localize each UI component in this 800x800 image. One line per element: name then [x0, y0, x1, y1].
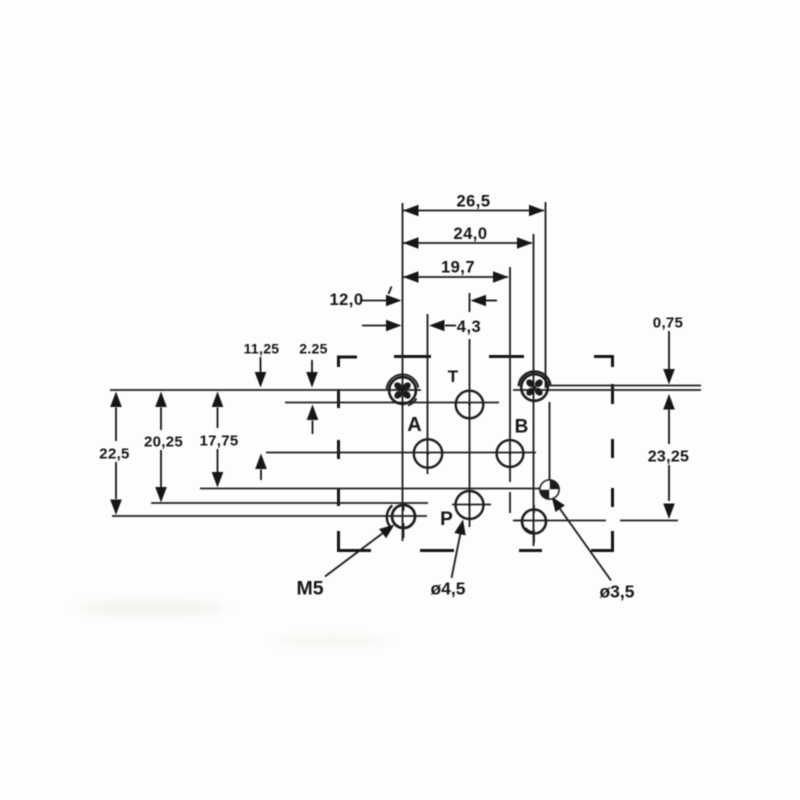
- small hole diameter 3,5: [540, 480, 559, 499]
- port A: [414, 439, 442, 467]
- extension line: small hole column: [549, 402, 551, 480]
- plate outline dashed: right edge dash 2: [611, 439, 614, 458]
- dimension 19,7 line: [403, 276, 508, 278]
- svg-text:22,5: 22,5: [99, 446, 129, 463]
- svg-text:17,75: 17,75: [199, 433, 238, 450]
- extension line: left bolt column: [402, 203, 404, 541]
- mounting hole M5 top-right: [519, 371, 551, 400]
- svg-text:ø3,5: ø3,5: [599, 582, 634, 602]
- svg-text:12,0: 12,0: [329, 291, 363, 309]
- plate outline dashed: bottom-right corner: [591, 531, 613, 551]
- extension line: port T column: [469, 293, 471, 312]
- dimension 11,25 upper arrow: [260, 357, 262, 372]
- plate outline dashed: bottom edge dash 2: [519, 549, 542, 552]
- svg-text:0,75: 0,75: [653, 315, 683, 332]
- svg-text:11,25: 11,25: [244, 341, 280, 357]
- dimension 20,25 line: [155, 392, 167, 408]
- plate outline dashed: right edge dash 1: [611, 384, 614, 404]
- svg-text:A: A: [407, 414, 421, 436]
- svg-text:T: T: [448, 367, 459, 386]
- extension line: right bolt column: [533, 234, 535, 546]
- leader diameter 3,5: [559, 508, 611, 581]
- dimension 17,75 line: [212, 392, 224, 408]
- plate outline dashed: left edge dash 2: [337, 440, 340, 459]
- reference line: 23,25 bottom: [620, 520, 678, 522]
- leader diameter 4,5: [452, 533, 461, 578]
- svg-text:ø4,5: ø4,5: [430, 579, 465, 599]
- mounting hole M5 top-left: [387, 374, 419, 405]
- svg-text:24,0: 24,0: [453, 225, 487, 243]
- dimension 4,3 right arrow: [429, 320, 445, 332]
- port P: [456, 491, 484, 519]
- plate outline dashed: left edge dash 3: [337, 488, 340, 506]
- paper smudge bottom-center: [275, 636, 385, 646]
- center line: bottom-right hole row: [513, 520, 606, 522]
- dimension 0,75 arrow: [668, 331, 670, 369]
- svg-text:20,25: 20,25: [144, 434, 183, 451]
- dimension 24,0 line: [403, 242, 532, 244]
- svg-text:4,3: 4,3: [457, 318, 481, 336]
- center line: port T row: [285, 402, 499, 404]
- dimension 4,3 left arrow: [362, 325, 386, 327]
- dimension 22,5 line: [110, 392, 122, 408]
- center line: top hole row left segment: [110, 389, 421, 391]
- center line: top hole row right segment: [513, 389, 701, 391]
- port B: [497, 440, 524, 467]
- svg-text:2.25: 2.25: [299, 341, 327, 357]
- leader M5: [325, 533, 383, 577]
- dimension 12,0 left arrow: [362, 300, 386, 302]
- mounting hole M5 bottom-left: [387, 503, 415, 538]
- svg-text:19,7: 19,7: [441, 259, 475, 277]
- svg-text:26,5: 26,5: [456, 193, 490, 211]
- plate outline dashed: left edge dash 1: [337, 389, 340, 408]
- dimension 2.25 lower arrow: [307, 405, 319, 421]
- center line: ports A and B row: [266, 452, 536, 454]
- center tick: port P horizontal: [452, 504, 491, 506]
- svg-text:B: B: [515, 417, 529, 438]
- dimension 23,25 line: [663, 394, 675, 410]
- dimension 12,0 right arrow: [471, 295, 487, 307]
- plate outline dashed: top-left corner: [339, 357, 358, 367]
- plate outline dashed: top-right corner: [594, 357, 613, 368]
- dimension 11,25 lower arrow: [255, 454, 267, 470]
- plate outline dashed: right edge dash 3: [611, 488, 614, 507]
- paper smudge bottom-left: [75, 602, 225, 614]
- svg-text:23,25: 23,25: [648, 449, 690, 466]
- port T: [456, 391, 484, 419]
- svg-text:P: P: [440, 509, 453, 530]
- plate outline dashed: bottom edge dash 1: [420, 549, 454, 552]
- plate outline dashed: top edge dash 1: [394, 355, 431, 358]
- center line: small hole row: [200, 488, 557, 490]
- extension line: 26,5 right: [545, 202, 547, 388]
- mounting hole M5 bottom-right: [515, 505, 546, 543]
- dimension 2.25 upper arrow: [311, 360, 313, 372]
- center line: bottom-left hole row: [112, 515, 427, 517]
- plate outline dashed: top edge dash 2: [489, 355, 524, 358]
- reference line: 0,75 offset upper line: [546, 385, 701, 387]
- extension line: port B column: [509, 267, 511, 482]
- extension line: port A column: [427, 314, 429, 474]
- reference line: 20,25 row: [151, 502, 428, 504]
- dimension 26,5 line: [403, 210, 544, 212]
- svg-text:M5: M5: [296, 578, 323, 600]
- stray tick mark: [389, 287, 392, 295]
- plate outline dashed: bottom-left corner: [339, 531, 372, 551]
